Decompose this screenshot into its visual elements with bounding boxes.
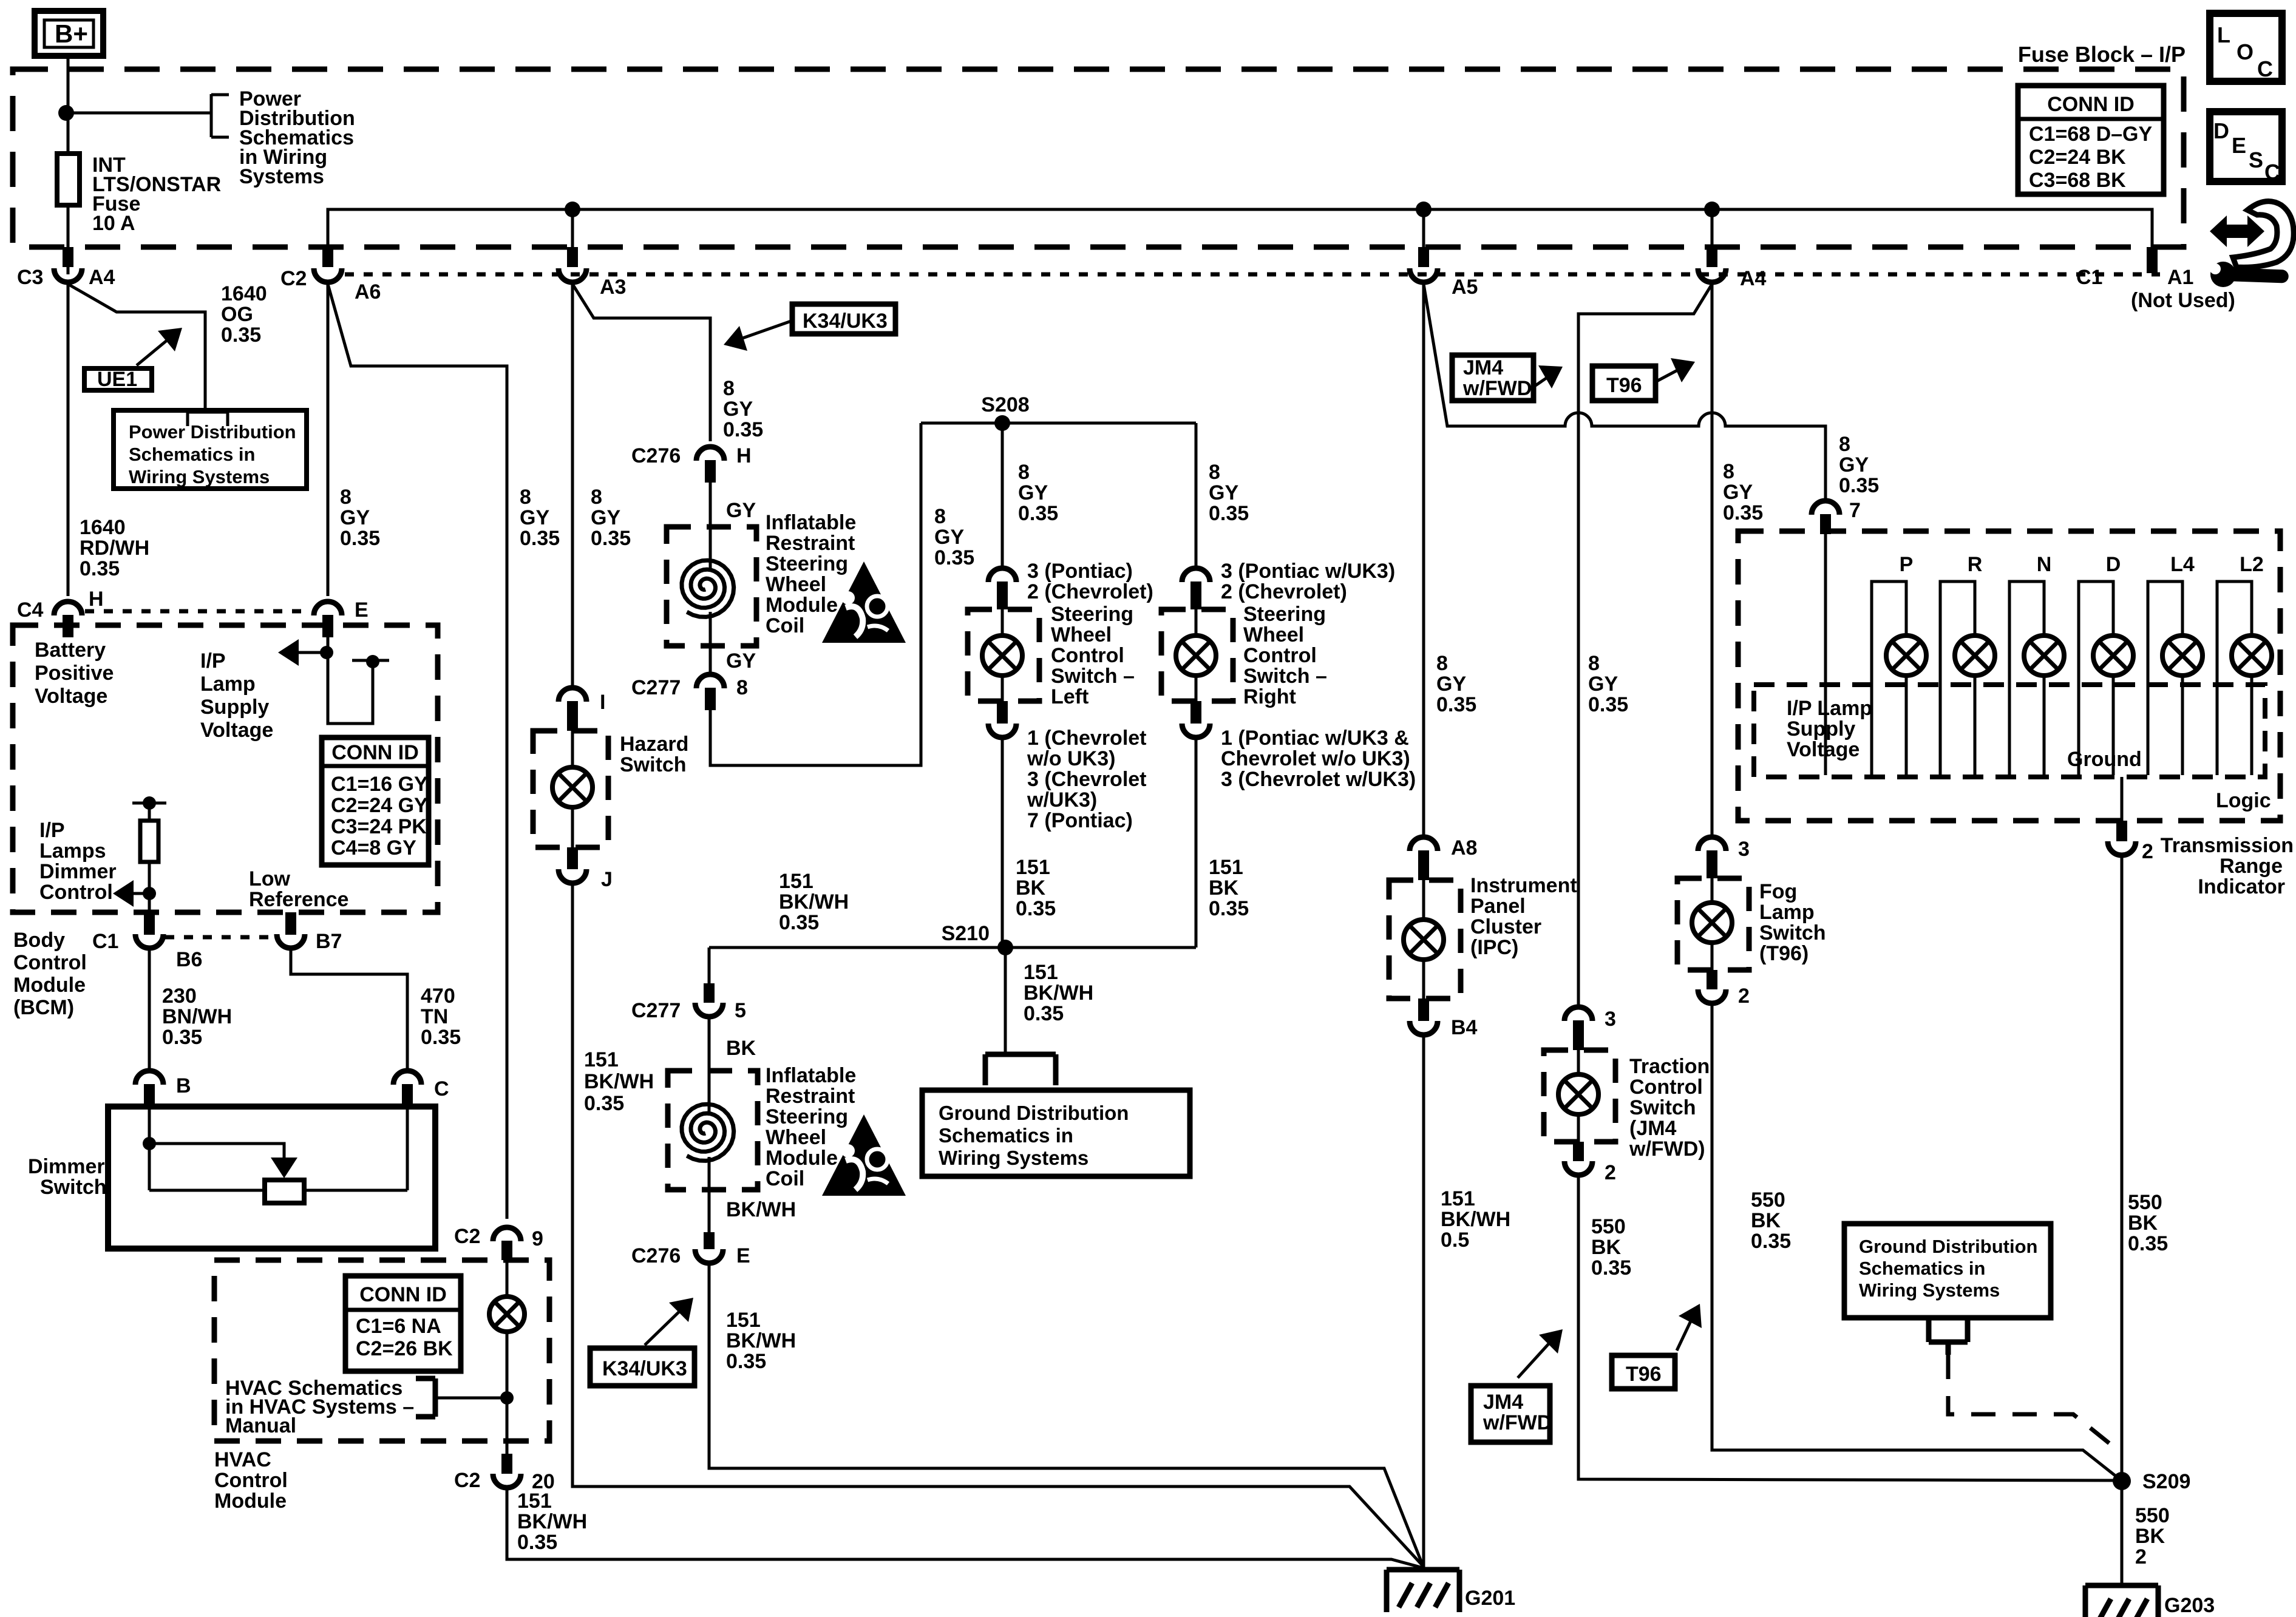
K34/UK3 option box lower: [590, 1348, 695, 1386]
TRI lamp N: [2009, 553, 2064, 775]
terminal bar E internal: [352, 655, 389, 668]
CONN ID table fuse block: [2018, 86, 2164, 194]
label 550 BK 2 below S209: [2135, 1504, 2170, 1568]
connector C277/5: [631, 983, 746, 1022]
connector 2 TRI ground: [2108, 821, 2153, 863]
svg-text:Inflatable: Inflatable: [766, 1064, 856, 1087]
connector row dotted line: [345, 273, 2160, 277]
connector 3 traction: [1564, 1007, 1616, 1050]
svg-text:8: 8: [1436, 652, 1448, 675]
svg-text:Voltage: Voltage: [35, 685, 107, 708]
svg-text:BK/WH: BK/WH: [779, 890, 849, 914]
svg-text:Fuse Block – I/P: Fuse Block – I/P: [2018, 42, 2186, 67]
svg-text:0.35: 0.35: [1024, 1002, 1064, 1025]
svg-text:TN: TN: [421, 1005, 448, 1028]
svg-text:5: 5: [735, 999, 746, 1022]
connector J hazard: [559, 847, 613, 891]
svg-text:3 (Chevrolet w/UK3): 3 (Chevrolet w/UK3): [1221, 768, 1416, 791]
svg-text:S: S: [2249, 147, 2263, 172]
BCM dashed box: [13, 625, 438, 912]
wire right switch to S210: [1195, 736, 1198, 947]
svg-text:Voltage: Voltage: [1787, 738, 1860, 761]
label 151 BK/WH 0.35 S210 left: [779, 870, 849, 934]
svg-text:w/FWD): w/FWD): [1629, 1137, 1705, 1161]
wire A6 jog to HVAC 8 GY: [328, 284, 507, 1219]
TRI inner dashed box: [1754, 685, 2265, 777]
splice S208: [981, 393, 1029, 431]
connector C4/H: [17, 588, 104, 637]
label I/P lamp supply voltage TRI: [1787, 697, 1872, 761]
svg-text:550: 550: [1591, 1215, 1626, 1238]
svg-text:G201: G201: [1465, 1587, 1515, 1610]
svg-text:A8: A8: [1451, 836, 1477, 859]
svg-text:0.35: 0.35: [517, 1531, 557, 1554]
svg-text:0.35: 0.35: [1751, 1230, 1791, 1253]
BCM connector dotted line: [85, 609, 311, 614]
coil 2 dashed box: [668, 1071, 758, 1190]
svg-text:C276: C276: [631, 444, 681, 467]
wire fog to S209: [1712, 1002, 2121, 1480]
svg-text:3 (Pontiac w/UK3): 3 (Pontiac w/UK3): [1221, 560, 1395, 583]
svg-text:S210: S210: [942, 922, 990, 945]
svg-text:0.35: 0.35: [1209, 897, 1249, 920]
svg-text:Wheel: Wheel: [766, 1126, 826, 1149]
svg-text:Indicator: Indicator: [2198, 875, 2285, 898]
svg-text:A6: A6: [355, 280, 381, 303]
junction dot dimmer control: [143, 887, 156, 900]
wire C2-20 to G201: [507, 1486, 1423, 1568]
label BK/WH below coil 2: [726, 1198, 796, 1221]
svg-text:K34/UK3: K34/UK3: [803, 310, 888, 333]
inflatable restraint coil 1 spiral: [682, 560, 734, 617]
label I/P lamp supply voltage: [200, 649, 273, 742]
svg-text:Control: Control: [13, 951, 87, 974]
svg-text:C2=26 BK: C2=26 BK: [356, 1337, 453, 1360]
wire to power distribution bracket: [66, 94, 229, 137]
svg-text:BK: BK: [1016, 876, 1046, 900]
connector A5: [1410, 247, 1478, 299]
ground distribution schematics box 1: [922, 1090, 1190, 1176]
svg-text:Schematics in: Schematics in: [129, 444, 255, 465]
svg-text:Panel: Panel: [1470, 895, 1526, 918]
svg-text:8: 8: [934, 505, 946, 528]
svg-text:Chevrolet w/o UK3): Chevrolet w/o UK3): [1221, 747, 1410, 770]
svg-text:Ground Distribution: Ground Distribution: [939, 1102, 1129, 1124]
svg-text:0.35: 0.35: [591, 527, 631, 550]
svg-text:JM4: JM4: [1483, 1391, 1523, 1414]
svg-text:0.35: 0.35: [1436, 693, 1476, 716]
svg-text:Lamp: Lamp: [1759, 901, 1815, 924]
svg-text:0.35: 0.35: [1209, 502, 1249, 525]
wire resistor to C1 pin: [148, 862, 151, 914]
connector 2 fog: [1698, 970, 1750, 1008]
wire dimmer C internal: [406, 1107, 409, 1190]
LOC legend box: [2210, 13, 2282, 81]
svg-text:Wiring Systems: Wiring Systems: [129, 466, 270, 487]
label 1640 RD/WH 0.35: [80, 516, 149, 580]
svg-text:Restraint: Restraint: [766, 1085, 855, 1108]
svg-text:Lamps: Lamps: [39, 839, 106, 863]
B+ battery feed box: [35, 11, 103, 56]
wire into coil 2: [708, 1015, 711, 1116]
junction dot bus A3: [565, 202, 580, 217]
svg-text:0.35: 0.35: [1591, 1256, 1631, 1280]
svg-text:P: P: [1900, 553, 1914, 576]
svg-text:N: N: [2037, 553, 2052, 576]
terminal bracket ground distribution 1: [985, 1054, 1056, 1085]
dimmer switch box: [108, 1107, 435, 1249]
coil 1 dashed box: [667, 527, 756, 646]
label 8 GY 0.35 TRI: [1839, 433, 1879, 497]
svg-text:C4: C4: [17, 598, 44, 622]
K34/UK3 option box upper: [792, 304, 895, 334]
svg-text:Wheel: Wheel: [1243, 623, 1304, 646]
label 151 BK/WH 0.35 HVAC out: [517, 1490, 587, 1554]
label transmission range indicator: [2161, 834, 2294, 898]
terminal bar 1640 OG: [188, 412, 228, 426]
UE1 option box: [84, 368, 152, 391]
dashed optional ground wire: [1948, 1355, 2113, 1446]
connector C2/20 HVAC: [454, 1454, 555, 1493]
label 550 BK 0.35 fog: [1751, 1188, 1791, 1253]
lamp steering left: [982, 609, 1022, 701]
svg-text:(BCM): (BCM): [13, 996, 74, 1019]
DESC legend box: [2210, 112, 2282, 185]
svg-text:151: 151: [584, 1048, 619, 1071]
wire TRI ground to S209: [2121, 853, 2124, 1585]
connector A3: [559, 247, 626, 299]
stub bus to A5: [1422, 209, 1425, 261]
T96 arrow lower: [1677, 1304, 1702, 1351]
traction control switch dashed box: [1544, 1050, 1615, 1142]
label 151 BK 0.35 right: [1209, 856, 1249, 920]
label BK above coil 2: [726, 1037, 756, 1060]
wire A6 to E: [327, 284, 330, 596]
label 8 GY 0.35 fog: [1723, 460, 1763, 524]
wire hazard J to G201: [572, 881, 1423, 1566]
svg-text:Control: Control: [39, 881, 113, 904]
wire S208 to right switch: [1195, 423, 1198, 568]
wire B6 to dimmer B 230 BN/WH: [148, 947, 151, 1073]
svg-text:0.35: 0.35: [520, 527, 560, 550]
airbag warning triangle 1: [822, 561, 906, 643]
svg-text:8: 8: [340, 486, 352, 509]
svg-text:151: 151: [1024, 961, 1058, 984]
svg-text:(IPC): (IPC): [1470, 936, 1518, 959]
svg-text:2: 2: [1605, 1161, 1616, 1184]
label GY above coil: [726, 499, 756, 522]
label body control module: [13, 929, 87, 1019]
svg-text:BK/WH: BK/WH: [517, 1510, 587, 1533]
svg-text:0.35: 0.35: [934, 546, 974, 569]
svg-text:Low: Low: [249, 867, 291, 890]
svg-text:D: D: [2106, 553, 2121, 576]
svg-text:Control: Control: [1243, 644, 1317, 667]
svg-text:C3=24 PK: C3=24 PK: [331, 815, 427, 838]
label 8 GY 0.35 HVAC wire: [520, 486, 560, 550]
svg-text:C3: C3: [17, 266, 43, 289]
connector I hazard: [559, 688, 605, 731]
wire B7 to dimmer C 470 TN: [291, 947, 407, 1073]
label 8 GY 0.35 S208 left: [934, 505, 974, 569]
svg-text:Instrument: Instrument: [1470, 874, 1577, 897]
svg-text:Traction: Traction: [1629, 1055, 1710, 1078]
svg-text:0.35: 0.35: [80, 557, 120, 580]
svg-text:C1=6 NA: C1=6 NA: [356, 1315, 441, 1338]
svg-text:w/o UK3): w/o UK3): [1027, 747, 1115, 770]
airbag warning triangle 2: [822, 1114, 906, 1196]
svg-text:1640: 1640: [221, 282, 267, 305]
wire A5 to IPC: [1422, 284, 1425, 836]
svg-text:L4: L4: [2170, 553, 2195, 576]
connector C277/8: [631, 674, 748, 710]
svg-text:0.35: 0.35: [162, 1026, 202, 1049]
label 151 BK/WH 0.35 hazard: [584, 1048, 654, 1115]
label 8 GY 0.35 hazard wire: [591, 486, 631, 550]
svg-text:BK/WH: BK/WH: [584, 1070, 654, 1093]
svg-text:Logic: Logic: [2216, 789, 2271, 812]
svg-text:BK/WH: BK/WH: [1024, 981, 1093, 1005]
svg-text:0.35: 0.35: [2128, 1232, 2168, 1255]
svg-text:Battery: Battery: [35, 639, 106, 662]
svg-text:0.35: 0.35: [726, 1350, 766, 1373]
svg-text:Wheel: Wheel: [1051, 623, 1112, 646]
svg-text:550: 550: [2128, 1191, 2162, 1214]
svg-text:E: E: [2232, 133, 2246, 158]
connector A4 right: [1698, 247, 1767, 290]
svg-text:Inflatable: Inflatable: [766, 511, 856, 534]
svg-text:Positive: Positive: [35, 662, 114, 685]
svg-text:GY: GY: [1436, 673, 1466, 696]
svg-text:8: 8: [520, 486, 531, 509]
svg-text:Control: Control: [1629, 1076, 1703, 1099]
wire TRI ground internal: [2121, 777, 2124, 821]
svg-text:BN/WH: BN/WH: [162, 1005, 232, 1028]
svg-text:w/FWD: w/FWD: [1462, 377, 1532, 400]
svg-text:I/P: I/P: [200, 649, 226, 673]
svg-text:T96: T96: [1626, 1363, 1662, 1386]
svg-text:BK: BK: [1751, 1209, 1781, 1232]
svg-text:GY: GY: [723, 398, 753, 421]
svg-text:3 (Pontiac): 3 (Pontiac): [1027, 560, 1133, 583]
svg-text:Transmission: Transmission: [2161, 834, 2294, 857]
stub bus to A4: [1711, 209, 1714, 261]
svg-text:Supply: Supply: [1787, 717, 1855, 741]
svg-text:0.35: 0.35: [1016, 897, 1056, 920]
svg-text:C1: C1: [92, 930, 118, 953]
lamp hazard switch: [552, 731, 593, 847]
connector 3 fog: [1698, 837, 1750, 878]
dimmer wiper arrow: [149, 1144, 297, 1178]
TRI lamp L2: [2217, 553, 2272, 775]
svg-text:A1: A1: [2167, 266, 2193, 289]
svg-text:C3=68 BK: C3=68 BK: [2029, 169, 2126, 192]
label 550 BK 0.35 traction: [1591, 1215, 1631, 1280]
svg-text:9: 9: [532, 1227, 543, 1250]
connector left switch pin 3/2: [988, 560, 1153, 609]
svg-text:UE1: UE1: [97, 368, 137, 391]
svg-text:1640: 1640: [80, 516, 126, 539]
svg-text:GY: GY: [1588, 673, 1618, 696]
splice S210: [942, 922, 1013, 955]
lamp steering right: [1176, 609, 1216, 701]
svg-text:Reference: Reference: [249, 888, 348, 911]
svg-text:Right: Right: [1243, 685, 1296, 708]
bus wire across fuse block: [328, 209, 2152, 261]
instrument panel cluster dashed box: [1389, 880, 1461, 998]
fuse block dashed border: [13, 69, 2184, 247]
junction dot bus A4: [1704, 202, 1720, 217]
UE1 arrow: [137, 328, 182, 365]
svg-text:0.35: 0.35: [723, 418, 763, 441]
label 151 BK 0.35 left: [1016, 856, 1056, 920]
label fuse INT LTS/ONSTAR 10A: [92, 154, 221, 235]
svg-text:8: 8: [1018, 461, 1030, 484]
svg-text:Wiring Systems: Wiring Systems: [1859, 1280, 2000, 1301]
connector pin 7 TRI: [1812, 499, 1861, 534]
wire A3 to hazard switch: [571, 284, 574, 687]
label GY below coil: [726, 649, 756, 673]
wire out of coil 2: [708, 1157, 711, 1232]
svg-text:J: J: [601, 868, 613, 891]
svg-text:Wiring Systems: Wiring Systems: [939, 1147, 1089, 1169]
svg-text:OG: OG: [221, 303, 253, 326]
wire pin 7 internal: [1824, 534, 1827, 775]
transmission range indicator dashed box: [1738, 531, 2280, 821]
svg-text:C: C: [434, 1077, 449, 1100]
svg-text:BK: BK: [726, 1037, 756, 1060]
terminal bar dimmer feed: [132, 796, 166, 810]
connector C3/A4: [17, 247, 115, 289]
BCM pins dotted line: [165, 935, 274, 940]
label HVAC schematics manual: [225, 1377, 414, 1437]
JM4 w/FWD option box lower: [1471, 1386, 1552, 1442]
svg-text:230: 230: [162, 985, 197, 1008]
svg-text:GY: GY: [1839, 453, 1869, 476]
HVAC dashed box: [214, 1260, 549, 1441]
svg-text:C: C: [2257, 56, 2273, 81]
lamp traction control: [1558, 1050, 1598, 1142]
svg-text:BK: BK: [1591, 1236, 1622, 1259]
svg-text:B4: B4: [1451, 1016, 1478, 1039]
svg-text:7 (Pontiac): 7 (Pontiac): [1027, 809, 1133, 832]
label traction control switch: [1629, 1055, 1710, 1161]
svg-text:C2=24 BK: C2=24 BK: [2029, 146, 2126, 169]
connector E: [314, 598, 369, 637]
svg-text:Wheel: Wheel: [766, 573, 826, 596]
svg-text:2: 2: [1738, 985, 1750, 1008]
svg-text:Switch: Switch: [620, 753, 687, 776]
TRI lamp L4: [2148, 553, 2203, 775]
svg-text:Switch –: Switch –: [1243, 665, 1327, 688]
wire B+ to C3: [67, 56, 70, 274]
svg-text:Control: Control: [214, 1469, 288, 1492]
svg-text:2 (Chevrolet): 2 (Chevrolet): [1221, 580, 1347, 603]
svg-text:C4=8 GY: C4=8 GY: [331, 836, 416, 859]
svg-text:HVAC: HVAC: [214, 1448, 271, 1471]
svg-text:Module: Module: [766, 594, 838, 617]
label 8 GY 0.35 A6: [340, 486, 380, 550]
label battery positive voltage: [35, 639, 114, 708]
svg-text:Lamp: Lamp: [200, 673, 256, 696]
svg-text:BK/WH: BK/WH: [726, 1198, 796, 1221]
svg-text:Module: Module: [13, 974, 86, 997]
svg-text:8: 8: [591, 486, 602, 509]
svg-text:I/P Lamp: I/P Lamp: [1787, 697, 1872, 720]
svg-text:0.35: 0.35: [221, 324, 261, 347]
svg-text:8: 8: [1588, 652, 1600, 675]
svg-text:3: 3: [1738, 838, 1750, 861]
wire into coil 1: [709, 483, 712, 571]
wire C3 to UE1 circuit 1640 OG: [68, 284, 205, 412]
svg-text:Control: Control: [1051, 644, 1124, 667]
svg-text:A4: A4: [89, 266, 115, 289]
svg-text:BK: BK: [2128, 1212, 2158, 1235]
HVAC CONN ID table: [345, 1276, 461, 1371]
connector B dimmer: [135, 1071, 191, 1107]
svg-text:Switch –: Switch –: [1051, 665, 1135, 688]
svg-text:CONN ID: CONN ID: [359, 1283, 447, 1306]
svg-text:8: 8: [736, 676, 748, 699]
svg-text:151: 151: [779, 870, 813, 893]
fuse INT LTS/ONSTAR: [57, 154, 80, 205]
label steering wheel control switch left: [1051, 603, 1135, 708]
svg-text:GY: GY: [1209, 481, 1238, 504]
wire A5 to TRI pin 7: [1424, 284, 1826, 500]
junction dot B+ branch: [58, 105, 74, 121]
inflatable restraint coil 2 spiral: [682, 1104, 734, 1161]
svg-text:1 (Chevrolet: 1 (Chevrolet: [1027, 727, 1147, 750]
svg-text:D: D: [2213, 118, 2229, 143]
svg-text:G203: G203: [2164, 1594, 2215, 1617]
svg-text:0.35: 0.35: [421, 1026, 461, 1049]
svg-text:151: 151: [726, 1309, 761, 1332]
svg-text:BK: BK: [2135, 1525, 2165, 1548]
svg-text:Steering: Steering: [766, 552, 848, 575]
K34/UK3 arrow upper: [724, 321, 791, 351]
label logic TRI: [2216, 789, 2271, 812]
svg-text:8: 8: [1839, 433, 1850, 456]
svg-text:2: 2: [2135, 1545, 2147, 1568]
connector C1/B6: [92, 912, 202, 971]
T96 option box lower: [1612, 1355, 1675, 1389]
svg-text:C1=16 GY: C1=16 GY: [331, 773, 428, 796]
label 151 BK/WH 0.35 C276 E: [726, 1309, 796, 1373]
svg-text:10 A: 10 A: [92, 212, 135, 235]
svg-text:Dimmer: Dimmer: [39, 860, 117, 883]
svg-text:8: 8: [1209, 461, 1220, 484]
label ground TRI: [2067, 748, 2142, 771]
BCM CONN ID table: [322, 737, 429, 865]
TRI lamp R: [1940, 553, 1995, 775]
svg-text:Steering: Steering: [1243, 603, 1326, 626]
svg-text:C: C: [2264, 160, 2280, 185]
svg-text:1 (Pontiac w/UK3 &: 1 (Pontiac w/UK3 &: [1221, 727, 1409, 750]
svg-text:O: O: [2237, 39, 2254, 64]
svg-text:Systems: Systems: [239, 165, 324, 188]
svg-text:GY: GY: [726, 649, 756, 673]
wire C276-E to G201: [709, 1261, 1423, 1566]
svg-text:Body: Body: [13, 929, 65, 952]
svg-text:T96: T96: [1606, 374, 1642, 397]
connector B4 IPC: [1410, 998, 1478, 1039]
lamp IPC: [1404, 880, 1444, 998]
svg-text:151: 151: [1209, 856, 1243, 879]
connector B7: [277, 912, 342, 953]
wire to dimmer resistor: [148, 803, 151, 821]
svg-text:H: H: [89, 588, 104, 611]
connector C276/E: [631, 1232, 750, 1267]
